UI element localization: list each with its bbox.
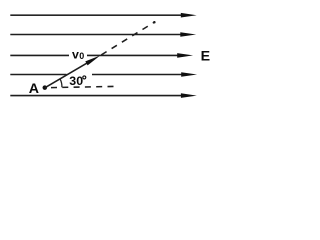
- svg-text:E: E: [201, 49, 210, 65]
- angle arc at A: [60, 79, 62, 87]
- vector v0 (solid arrow from A at 30 deg): [45, 56, 100, 88]
- svg-text:A: A: [29, 81, 39, 97]
- field line 3 (right segment): [87, 53, 193, 58]
- field line 1: [10, 13, 196, 18]
- svg-text:0: 0: [79, 51, 84, 61]
- field line 2: [10, 32, 196, 37]
- svg-text:30: 30: [69, 74, 83, 88]
- dashed horizontal reference line from A: [51, 86, 115, 87]
- field line 5: [10, 93, 197, 98]
- field line 4 (right segment, gap for 30-degree label): [92, 72, 197, 77]
- field line 3 (left segment, gap for v0 label): [10, 54, 69, 56]
- svg-text:v: v: [72, 47, 79, 61]
- dashed trajectory continuation: [101, 22, 155, 55]
- trajectory end dot: [153, 21, 156, 24]
- node A (start point dot): [43, 85, 48, 90]
- field line 4 (left segment, ends at v0 vector crossing): [10, 74, 66, 76]
